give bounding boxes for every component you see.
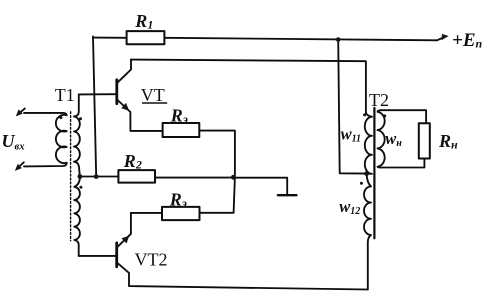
svg-text:R2: R2 [123,151,142,172]
svg-text:Rн: Rн [438,131,458,152]
svg-text:R1: R1 [134,11,153,32]
svg-text:Rэ: Rэ [169,190,187,211]
svg-text:VT: VT [141,85,165,105]
svg-text:T2: T2 [369,90,389,110]
svg-text:T1: T1 [55,85,75,105]
svg-text:+Eп: +Eп [452,30,483,51]
svg-text:wн: wн [385,129,402,149]
svg-text:Rэ: Rэ [170,106,188,127]
svg-text:VT2: VT2 [135,250,168,270]
svg-text:w12: w12 [339,197,360,217]
svg-text:w11: w11 [341,125,361,145]
svg-text:Uвх: Uвх [2,131,25,152]
